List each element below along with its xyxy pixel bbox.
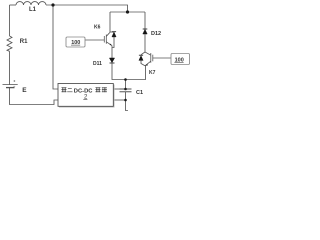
module box (58, 84, 113, 107)
battery E plate short (6, 87, 15, 89)
wire D12 to K7 collector (144, 34, 146, 52)
battery E plate long (3, 84, 18, 86)
module title cjk glyph 1 (di) (61, 87, 66, 92)
module title cjk glyph 3 (mo) (95, 87, 100, 92)
svg-text:D11: D11 (93, 61, 102, 67)
wire top bus left segment (10, 4, 17, 6)
module title cjk glyph 2 (er) (67, 88, 72, 92)
svg-text:E: E (22, 87, 27, 94)
inductor L1 (16, 2, 46, 5)
node dot y12 (126, 10, 129, 13)
emitter arrow K6 (110, 44, 112, 46)
node dot C1 top (124, 78, 127, 81)
capacitor C1 top lead (125, 80, 127, 90)
wire K6 emitter down (111, 46, 113, 58)
wire module to C1 bottom (114, 99, 126, 101)
label 100 left (71, 40, 80, 46)
freewheel diode of K6 (110, 32, 116, 48)
control box 100 right (171, 54, 190, 65)
node dot top (51, 3, 54, 6)
battery plus mark (13, 80, 15, 86)
svg-text:R1: R1 (20, 39, 28, 45)
wire left bus lower (9, 51, 11, 84)
resistor R1 (7, 36, 12, 51)
svg-text:L1: L1 (29, 7, 37, 13)
svg-text:DC-DC: DC-DC (74, 88, 93, 94)
svg-text:K7: K7 (149, 70, 156, 76)
capacitor C1 bottom lead (126, 92, 129, 111)
module box shadow (59, 85, 114, 108)
capacitor C1 plate top (120, 88, 132, 90)
emitter arrow K7 (145, 64, 148, 66)
wire left bus upper (9, 5, 11, 36)
diode D11 (109, 58, 114, 63)
svg-text:C1: C1 (136, 90, 143, 96)
transistor K6 (85, 32, 112, 45)
capacitor C1 plate bottom (120, 91, 132, 93)
wire D12 branch (144, 12, 146, 29)
wire K6 collector drop (109, 12, 111, 32)
wire second bus y12 (110, 11, 145, 13)
wire below battery to bottom (10, 88, 59, 105)
transistor K7 (145, 52, 171, 66)
label 100 right (174, 57, 183, 63)
wire module to C1 top (114, 88, 120, 90)
wire top bus right segment (46, 5, 128, 12)
node dot C1 low (124, 99, 127, 102)
wire D11 to mid rail (112, 63, 146, 80)
module number 2 underlined (83, 94, 88, 100)
module title cjk glyph 4 (kuai) (102, 87, 107, 92)
freewheel diode of K7 (139, 52, 145, 66)
diode D12 (143, 29, 148, 34)
svg-text:D12: D12 (151, 31, 161, 37)
node dot C1 mid (124, 88, 127, 91)
svg-text:K6: K6 (94, 25, 101, 31)
wire branch x53 down to module (53, 5, 58, 89)
control box 100 left (66, 37, 85, 47)
